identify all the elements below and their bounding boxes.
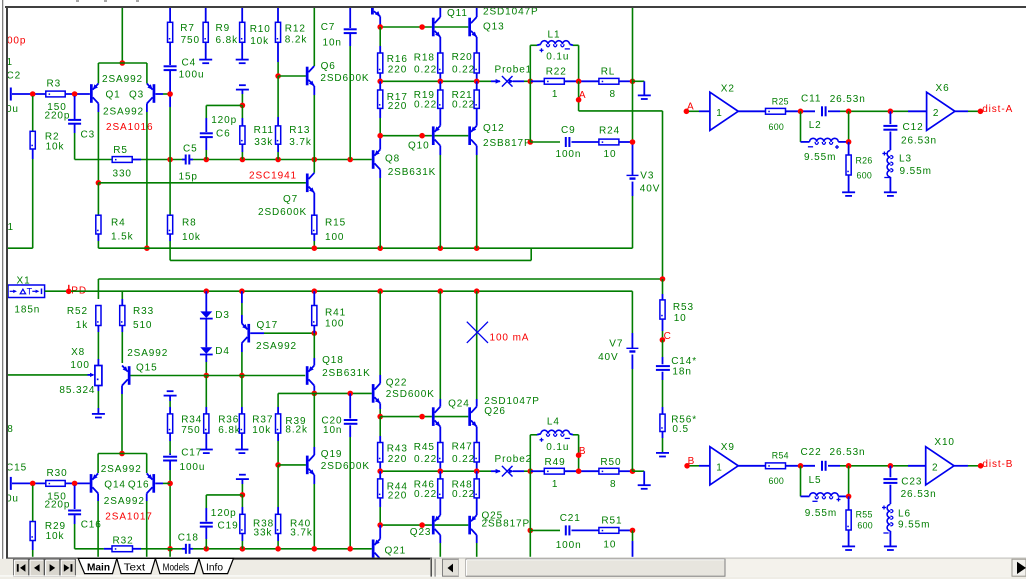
svg-text:100n: 100n (556, 149, 582, 160)
svg-text:R51: R51 (601, 516, 622, 527)
svg-text:Q15: Q15 (136, 362, 158, 373)
R32 line (75, 548, 104, 550)
svg-text:C23: C23 (901, 476, 922, 487)
resistor R47 (474, 443, 479, 463)
resistor R36 (205, 376, 207, 408)
ground below R10 (236, 59, 249, 61)
node dot rail A-wire junction (660, 276, 666, 282)
svg-text:0.22: 0.22 (414, 454, 437, 465)
resistor R22 (544, 78, 564, 84)
output line channel A (380, 80, 491, 82)
svg-text:9.55m: 9.55m (805, 508, 837, 519)
Q15 collector down (121, 386, 123, 395)
svg-text:C18: C18 (178, 533, 199, 544)
R43 top lead (379, 417, 381, 436)
svg-text:26.53n: 26.53n (901, 489, 937, 500)
Q22 emitter down (379, 403, 381, 409)
resistor R13 (277, 117, 279, 126)
capacitor C7 column (349, 8, 351, 28)
svg-text:Probe2: Probe2 (495, 454, 533, 465)
svg-text:8: 8 (610, 89, 616, 100)
capacitor C17 (169, 454, 171, 456)
tab Models (155, 558, 199, 573)
svg-text:100: 100 (325, 319, 344, 330)
svg-text:R4: R4 (111, 218, 126, 229)
potentiometer X8 (95, 366, 102, 386)
wire between Q10 Q12 bases (435, 135, 469, 137)
svg-text:R52: R52 (67, 306, 88, 317)
Q6 collector up (313, 8, 315, 66)
svg-text:100n: 100n (556, 540, 582, 551)
flipped ground above R11 (239, 84, 246, 86)
Q21 emitter up (379, 525, 381, 539)
svg-text:100: 100 (70, 360, 89, 371)
capacitor C14* (656, 365, 670, 367)
svg-text:0.1u: 0.1u (546, 442, 569, 453)
svg-text:A: A (579, 90, 587, 101)
Q12 collector down (476, 146, 478, 155)
svg-text:2SA992: 2SA992 (101, 464, 142, 475)
scrollbar thumb (466, 559, 725, 576)
svg-text:600: 600 (769, 122, 785, 132)
Q24 Q26 base line (380, 416, 432, 418)
capacitor C16 column (74, 485, 76, 509)
svg-text:C22: C22 (801, 447, 822, 458)
R46 bottom to Q23 emitter (439, 498, 441, 515)
svg-text:Q6: Q6 (321, 61, 336, 72)
svg-text:9.55m: 9.55m (804, 152, 836, 163)
Q22 base line (278, 392, 372, 394)
svg-text:X6: X6 (936, 83, 950, 94)
svg-text:L6: L6 (898, 508, 911, 519)
capacitor C22 (821, 461, 823, 471)
Q13 emitter to R20 (476, 37, 478, 53)
resistor R33 column (121, 291, 123, 299)
Q26 emitter to R47 (476, 427, 478, 443)
svg-text:1: 1 (716, 108, 722, 119)
op-amp X9 (710, 447, 738, 485)
resistor R15 (312, 215, 317, 234)
svg-text:2: 2 (932, 462, 938, 473)
svg-text:6.8k: 6.8k (218, 425, 241, 436)
transistor Q26 (468, 407, 471, 426)
svg-text:C21: C21 (560, 513, 581, 524)
svg-text:R7: R7 (180, 23, 195, 34)
transistor Q7 (306, 174, 309, 193)
resistor R49 (544, 468, 564, 474)
svg-text:R33: R33 (133, 306, 154, 317)
svg-text:Q14: Q14 (104, 479, 126, 490)
transistor Q17 column (241, 291, 243, 303)
wire X1 to PD (45, 290, 66, 292)
svg-text:L1: L1 (548, 30, 561, 41)
resistor R26 (848, 142, 850, 155)
svg-text:Text: Text (124, 561, 146, 573)
svg-text:R9: R9 (216, 23, 231, 34)
svg-text:R55: R55 (856, 510, 873, 520)
R16 top lead (379, 27, 381, 46)
svg-text:R20: R20 (452, 52, 473, 63)
wire Q10 Q12 base line (380, 135, 432, 137)
resistor R43 (378, 443, 383, 463)
capacitor C12 branch (889, 111, 891, 124)
Q14 collector down (97, 493, 99, 501)
node B voltage pin (576, 452, 582, 458)
svg-text:Q3: Q3 (129, 90, 144, 101)
svg-text:Q22: Q22 (386, 377, 408, 388)
canvas sunken border top (5, 6, 1026, 8)
svg-text:C: C (664, 331, 672, 342)
svg-text:C17: C17 (181, 448, 202, 459)
Q11 emitter to R18 (439, 37, 441, 53)
inductor L6 (887, 505, 890, 531)
svg-text:0.22: 0.22 (414, 489, 437, 500)
capacitor C11 (821, 106, 823, 116)
svg-text:2: 2 (933, 108, 939, 119)
svg-text:2SB631K: 2SB631K (388, 167, 437, 178)
resistor R39 (276, 414, 281, 433)
capacitor C6 (205, 118, 207, 132)
svg-text:R18: R18 (414, 52, 435, 63)
wire between Q11 Q13 bases (435, 26, 469, 28)
resistor R19 (438, 90, 443, 108)
node C voltage pin (660, 337, 666, 343)
Q13 collector up (476, 8, 478, 17)
svg-text:RL: RL (601, 67, 616, 78)
Q1 collector column (97, 104, 99, 113)
wire to C6 (206, 104, 242, 106)
svg-text:X10: X10 (934, 437, 955, 448)
wire R39 to R40 (277, 465, 279, 507)
Q10 collector down (439, 146, 441, 155)
svg-text:0.22: 0.22 (452, 489, 475, 500)
C21 R51 zobel line (528, 528, 534, 534)
Q17 collector down (241, 343, 243, 352)
svg-text:D3: D3 (215, 310, 230, 321)
svg-text:8.2k: 8.2k (285, 35, 308, 46)
svg-text:3.7k: 3.7k (290, 528, 313, 539)
node dist-B pin (978, 463, 984, 469)
svg-text:2SB817P: 2SB817P (482, 519, 531, 530)
resistor R5 (112, 157, 132, 163)
svg-text:Q16: Q16 (128, 479, 150, 490)
canvas bottom border (6, 558, 432, 559)
svg-text:18n: 18n (672, 367, 691, 378)
svg-text:Q7: Q7 (283, 194, 298, 205)
svg-text:R10: R10 (250, 24, 271, 35)
white highlight line below tabs (0, 575, 1026, 577)
resistor R12 column (277, 8, 279, 22)
capacitor C23 branch (889, 466, 891, 478)
wire input B to Q14 base (12, 482, 90, 484)
svg-text:D4: D4 (215, 346, 230, 357)
svg-text:100: 100 (325, 232, 344, 243)
svg-text:R13: R13 (289, 125, 310, 136)
V7 column (631, 291, 633, 333)
svg-text:2SD600K: 2SD600K (320, 73, 369, 84)
wire Q7 base line (98, 182, 306, 184)
R44 bottom to Q21 line (379, 498, 381, 507)
svg-text:dist-A: dist-A (982, 104, 1013, 115)
svg-text:C11: C11 (801, 94, 821, 105)
svg-text:120p: 120p (211, 508, 237, 519)
probe Probe1 (496, 79, 501, 84)
svg-text:R49: R49 (545, 457, 566, 468)
tab bar navigation buttons (14, 559, 29, 576)
svg-text:2SD600K: 2SD600K (258, 207, 307, 218)
svg-text:2SB631K: 2SB631K (322, 368, 371, 379)
scrollbar splitter (431, 559, 432, 577)
tab bar background (0, 559, 1026, 579)
svg-text:3.7k: 3.7k (289, 137, 312, 148)
resistor R17 (378, 90, 383, 108)
battery V7 (626, 347, 638, 349)
resistor RL (599, 78, 619, 84)
svg-text:0.1u: 0.1u (546, 52, 569, 63)
transistor Q3 (153, 84, 156, 103)
transistor Q11 (432, 18, 435, 37)
svg-text:Q26: Q26 (484, 406, 506, 417)
resistor R29 (32, 485, 34, 521)
svg-text:220: 220 (388, 101, 407, 112)
svg-text:2SD600K: 2SD600K (321, 461, 370, 472)
R19 bottom to Q10 emitter (439, 108, 441, 125)
svg-text:0.22: 0.22 (452, 454, 475, 465)
svg-text:10: 10 (674, 313, 687, 324)
ground below L3 (884, 191, 897, 193)
svg-text:1: 1 (716, 462, 722, 473)
svg-text:120p: 120p (211, 115, 237, 126)
svg-text:Q8: Q8 (385, 154, 400, 165)
diode D4 (200, 347, 212, 354)
resistor R10 column (241, 8, 243, 22)
svg-text:R53: R53 (673, 302, 694, 313)
Q8 emitter up (379, 136, 381, 150)
Q19 emitter down (313, 475, 315, 484)
svg-text:2SD1047P: 2SD1047P (483, 7, 539, 18)
svg-text:750: 750 (181, 35, 200, 46)
resistor R11 (241, 105, 243, 118)
svg-text:R15: R15 (325, 218, 346, 229)
transistor Q12 (468, 126, 471, 145)
ground below L6 (884, 545, 897, 547)
wire Q3 base to C4 column (155, 93, 163, 95)
resistor R41 column (313, 291, 315, 305)
resistor R20 (474, 53, 479, 73)
capacitor C20 column (349, 393, 351, 418)
capacitor C3 column (74, 96, 76, 119)
svg-text:0.22: 0.22 (452, 65, 475, 76)
resistor R18 (438, 53, 443, 73)
tab Info (199, 558, 234, 573)
svg-text:X8: X8 (71, 347, 85, 358)
svg-text:185n: 185n (14, 305, 40, 316)
wire R41 bottom to Q18 emitter (313, 333, 315, 358)
status strip bottom (0, 577, 1026, 579)
svg-text:C19: C19 (218, 520, 239, 531)
svg-text:8.2k: 8.2k (285, 424, 308, 435)
svg-text:10n: 10n (323, 425, 342, 436)
svg-text:L4: L4 (547, 417, 560, 428)
Q7 emitter to R15 (313, 193, 315, 215)
node dist-A pin (978, 109, 984, 115)
svg-text:R41: R41 (325, 308, 346, 319)
svg-text:0.22: 0.22 (414, 65, 437, 76)
svg-text:R3: R3 (47, 79, 62, 90)
input terminal channel B (10, 477, 12, 490)
inductor L3 (887, 151, 890, 177)
node B input pin (684, 463, 690, 469)
Q17 base wire to R41 (250, 332, 264, 334)
transistor Q8 (372, 150, 375, 169)
svg-text:40V: 40V (640, 184, 661, 195)
clipped transistor top edge (371, 8, 374, 15)
tab row top border line (234, 558, 431, 560)
X8 to ground (97, 386, 99, 392)
bottom rail channel A (98, 247, 632, 249)
wire R2 bottom to left edge (32, 149, 34, 159)
supply rail channel B (71, 290, 633, 292)
wire Q11 Q13 base line (380, 26, 432, 28)
svg-text:Q23: Q23 (410, 527, 432, 538)
resistor R24 (599, 139, 619, 145)
svg-text:1: 1 (552, 479, 558, 490)
svg-text:R11: R11 (254, 125, 274, 136)
Q25 collector down (476, 535, 478, 543)
scrollbar track (459, 559, 1026, 576)
resistor R32 (104, 548, 112, 550)
svg-text:2SC1941: 2SC1941 (249, 171, 297, 182)
transistor Q14 (90, 474, 93, 493)
delay block X1 (8, 285, 45, 298)
svg-text:Q1: Q1 (106, 90, 121, 101)
capacitor C21 (565, 525, 567, 535)
svg-text:C6: C6 (216, 128, 231, 139)
transistor Q25 (468, 516, 471, 535)
voltage pin PD (66, 289, 72, 295)
svg-text:Q11: Q11 (447, 8, 468, 19)
svg-text:8: 8 (7, 424, 13, 435)
op-amp X2 (710, 92, 738, 130)
transistor Q1 (90, 84, 93, 103)
svg-text:510: 510 (133, 320, 152, 331)
svg-text:15p: 15p (179, 172, 198, 183)
svg-text:R26: R26 (856, 155, 873, 165)
svg-text:dist-B: dist-B (982, 459, 1013, 470)
transistor Q17 (247, 324, 250, 343)
Q3 collector column (146, 104, 148, 113)
svg-text:V7: V7 (609, 338, 623, 349)
inductor L4 loop (529, 435, 531, 471)
Q22 collector up (379, 375, 381, 383)
resistor R4 (96, 215, 101, 234)
svg-text:2SA992: 2SA992 (127, 348, 168, 359)
svg-text:220: 220 (388, 491, 407, 502)
resistor R9 column (205, 8, 207, 22)
svg-text:40V: 40V (598, 352, 619, 363)
X9 output wire (738, 465, 765, 467)
svg-text:Q19: Q19 (321, 449, 343, 460)
wire node A run right (579, 110, 663, 112)
svg-text:2SA992: 2SA992 (256, 341, 297, 352)
node dot input A 2 (72, 91, 78, 97)
ground at RL (633, 80, 645, 82)
svg-text:R50: R50 (600, 457, 621, 468)
svg-text:R8: R8 (182, 218, 197, 229)
wire Q16 base to C17 column (155, 482, 163, 484)
svg-text:1: 1 (8, 222, 14, 233)
resistor R45 (438, 443, 443, 463)
svg-text:R45: R45 (414, 442, 435, 453)
probe Probe2 (496, 469, 501, 474)
svg-text:750: 750 (181, 425, 200, 436)
ground below R56* (656, 452, 669, 454)
Q18 collector down (313, 386, 315, 394)
svg-text:R32: R32 (113, 536, 134, 547)
transistor Q19 (278, 464, 306, 466)
svg-text:2SA992: 2SA992 (102, 74, 143, 85)
svg-text:600: 600 (769, 476, 785, 486)
C9 R24 zobel line (528, 139, 534, 145)
input terminal channel A (10, 88, 12, 101)
capacitor C9 (565, 137, 567, 147)
R21 bottom to Q12 emitter (476, 108, 478, 125)
resistor R56* (660, 414, 665, 431)
X6 output to dist-A (955, 110, 968, 112)
svg-text:R22: R22 (546, 67, 567, 78)
svg-text:6.8k: 6.8k (216, 35, 239, 46)
resistor R51 (599, 528, 619, 534)
op-amp X10 (926, 447, 954, 485)
svg-text:10: 10 (603, 539, 616, 550)
svg-text:1.5k: 1.5k (111, 232, 134, 243)
svg-text:X9: X9 (721, 442, 735, 453)
transistor Q24 (432, 407, 435, 426)
svg-text:T: T (27, 286, 33, 296)
diode D3 (200, 311, 212, 318)
svg-text:Main: Main (87, 561, 110, 573)
Q6 emitter column down (313, 86, 315, 95)
resistor R8 (168, 215, 173, 234)
svg-text:L2: L2 (809, 120, 822, 131)
R17 bottom to base line (379, 108, 381, 118)
svg-text:Q12: Q12 (483, 123, 505, 134)
svg-text:C2: C2 (7, 71, 22, 82)
svg-text:2SB817P: 2SB817P (483, 138, 532, 149)
svg-text:330: 330 (113, 169, 132, 180)
svg-text:10k: 10k (46, 142, 65, 153)
svg-text:10: 10 (604, 149, 617, 160)
inductor L2 branch (800, 111, 802, 142)
canvas sunken border left (6, 6, 8, 558)
svg-text:33k: 33k (254, 528, 273, 539)
ground below R36 (200, 449, 213, 451)
X2 output wire (738, 110, 765, 112)
svg-text:2SA992: 2SA992 (104, 496, 145, 507)
resistor R37 (241, 376, 243, 408)
wire R12 to R13 (277, 76, 279, 117)
svg-text:Probe1: Probe1 (495, 65, 533, 76)
transistor Q21 (372, 540, 375, 559)
svg-text:100u: 100u (179, 70, 205, 81)
ground below R55 (842, 545, 855, 547)
resistor R7 column (169, 8, 171, 22)
ground below R26 (842, 191, 855, 193)
wire Q6 base (278, 75, 306, 77)
flipped ground above R34 (167, 390, 174, 392)
svg-text:0.22: 0.22 (414, 100, 437, 111)
svg-text:2SD600K: 2SD600K (386, 389, 435, 400)
